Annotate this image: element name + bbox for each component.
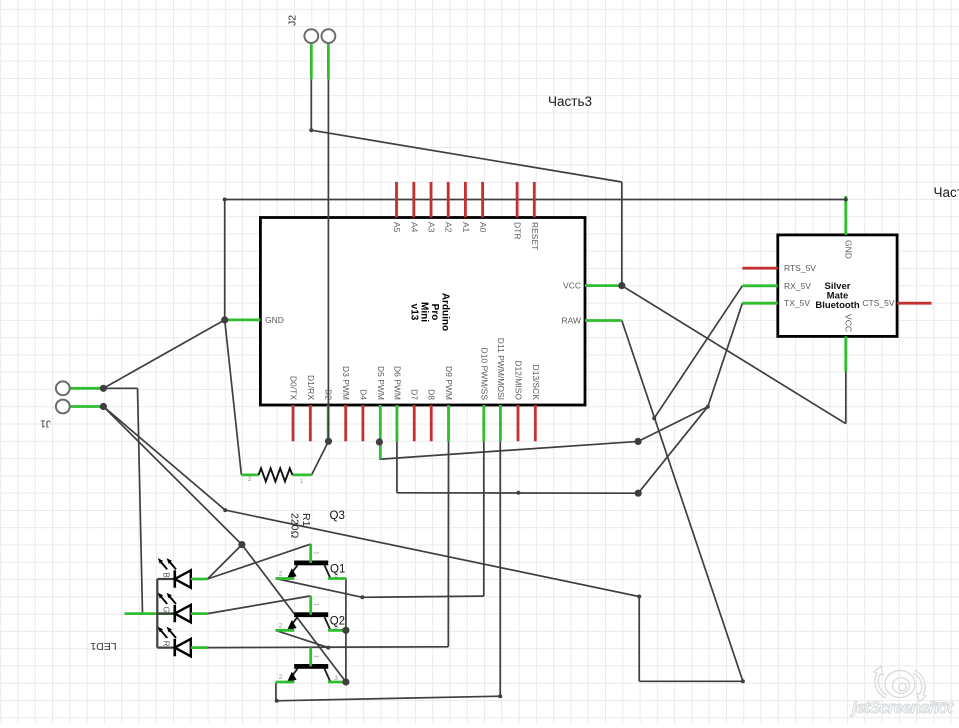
transistor Q1 [276, 544, 347, 579]
svg-text:D12/MISO: D12/MISO [514, 360, 524, 400]
bend GND right [844, 198, 848, 202]
wire collector bus vertical [345, 579, 347, 683]
junction GND [221, 316, 228, 323]
svg-text:v13: v13 [408, 304, 419, 321]
junction RX on RAW [652, 416, 656, 420]
wire D6 vertical [396, 441, 398, 493]
connector J1 [56, 381, 70, 395]
junction Q3 collector [342, 678, 349, 685]
wire GND to R1 left [225, 320, 242, 475]
junction D2 [325, 438, 332, 445]
wire J1-2 to node A [103, 407, 242, 545]
wire D2 node to R1 right [312, 441, 329, 475]
svg-text:D8: D8 [427, 389, 437, 400]
bend right riser [637, 595, 641, 599]
pin D10 green stub [482, 405, 485, 441]
junction D5 [376, 438, 383, 445]
bend D6 line [516, 491, 520, 495]
junction TX vertex [706, 405, 710, 409]
svg-text:J2: J2 [287, 15, 299, 26]
svg-text:Arduino: Arduino [440, 293, 451, 331]
svg-text:RESET: RESET [530, 222, 540, 250]
svg-text:.com: .com [931, 699, 949, 708]
pin A3 red stub [430, 182, 433, 218]
wire J1-1 down to LED bus [138, 388, 143, 613]
watermark jetScreenshot [874, 666, 926, 702]
junction J1-2 [100, 403, 107, 410]
pin D9 green stub [447, 405, 450, 441]
svg-text:RAW: RAW [561, 316, 581, 326]
bend shallow wire [223, 508, 227, 512]
junction Q2 collector [342, 627, 349, 634]
svg-text:A4: A4 [409, 222, 419, 233]
svg-text:D6 PWM: D6 PWM [392, 366, 402, 400]
svg-text:D11 PWM/MOSI: D11 PWM/MOSI [496, 338, 506, 400]
svg-text:1: 1 [300, 478, 304, 485]
wire LED bus vertical [156, 579, 158, 648]
Silver Mate VCC green pin [844, 336, 847, 371]
svg-text:TX_5V: TX_5V [784, 298, 810, 308]
op-amp U1 Arduino Pro Mini v13 body [260, 218, 585, 406]
svg-text:GND: GND [265, 315, 284, 325]
J2 green pin stubs [310, 43, 313, 79]
J1 green pin stubs [70, 387, 104, 390]
pin D4 red stub [361, 405, 364, 441]
svg-text:D1/RX: D1/RX [306, 375, 316, 400]
junction D5-TX [635, 438, 642, 445]
bend D10 wire [360, 595, 364, 599]
bend J2-1 [309, 128, 313, 132]
LED R of LED1 [158, 627, 208, 657]
pin D5 green stub [379, 405, 382, 459]
wire to TX_5V [708, 303, 743, 407]
bend D11 [498, 694, 502, 698]
pin RX_5V green stub [742, 284, 777, 287]
svg-text:RTS_5V: RTS_5V [784, 263, 816, 273]
svg-text:220Ω: 220Ω [289, 513, 301, 539]
svg-text:Часть3: Часть3 [934, 185, 959, 200]
wire long shallow diagonal [225, 510, 639, 596]
pin VCC green stub [585, 284, 622, 287]
wire bus links to LEDs [157, 578, 175, 580]
wire LED G to Q2 base [208, 596, 311, 614]
wire LED B to Q1 base [208, 544, 311, 579]
svg-text:J1: J1 [40, 418, 51, 429]
svg-text:Mini: Mini [419, 302, 430, 322]
LED G left green pin [125, 612, 175, 615]
wire D5 shallow horizontal [379, 441, 638, 459]
wire J2-1 down [310, 79, 312, 130]
svg-text:VCC: VCC [563, 281, 581, 291]
wire link to LED G [143, 613, 158, 615]
wire Q1 emitter to node [276, 579, 363, 598]
wire LED R to D9 line [208, 646, 449, 649]
wire GND left vertical [224, 200, 226, 320]
LED B of LED1 [158, 558, 208, 588]
bend GND left [223, 198, 227, 202]
wire J1-1 stub right [103, 387, 137, 389]
wire J2-1 to VCC diagonal [311, 130, 622, 182]
svg-text:RX_5V: RX_5V [784, 281, 811, 291]
svg-text:D7: D7 [410, 389, 420, 400]
junction node A [238, 541, 245, 548]
svg-text:D10 PWM/SS: D10 PWM/SS [479, 348, 489, 401]
wire down to VCC node [621, 182, 623, 286]
wire Q3 emitter down [275, 683, 277, 701]
pin D2 green stub [327, 405, 330, 441]
junction VCC [618, 282, 625, 289]
svg-text:Q2: Q2 [330, 615, 345, 627]
svg-text:LED1: LED1 [90, 640, 116, 652]
wire bottom right horizontal [639, 680, 743, 682]
svg-text:2: 2 [248, 476, 252, 483]
svg-text:B: B [162, 572, 171, 577]
pin RESET red stub [533, 182, 536, 218]
Silver Mate GND green pin [844, 196, 847, 235]
svg-text:D3 PWM: D3 PWM [341, 366, 351, 400]
svg-text:D9 PWM: D9 PWM [444, 366, 454, 400]
pin RTS_5V red stub [742, 267, 777, 270]
junction J1-1 [100, 385, 107, 392]
svg-text:CTS_5V: CTS_5V [862, 298, 894, 308]
svg-text:D4: D4 [358, 389, 368, 400]
pin A2 red stub [447, 182, 450, 218]
LED G of LED1 [158, 593, 208, 623]
svg-text:GND: GND [844, 240, 854, 259]
wire node A to LED B [208, 545, 242, 579]
wire RX_5V diagonal [654, 286, 742, 418]
wire RAW long diagonal [622, 321, 743, 682]
pin D12 red stub [517, 405, 520, 441]
svg-text:A5: A5 [392, 222, 402, 233]
svg-text:D5 PWM: D5 PWM [376, 366, 386, 400]
svg-text:Q3: Q3 [330, 510, 345, 522]
pin TX_5V green stub [742, 302, 777, 305]
svg-text:2: 2 [279, 674, 283, 681]
svg-text:R1: R1 [300, 513, 312, 527]
svg-text:G: G [162, 606, 171, 612]
svg-text:Bluetooth: Bluetooth [815, 300, 860, 311]
wire vertical up [638, 597, 640, 682]
svg-text:D0/TX: D0/TX [289, 376, 299, 400]
pin A5 red stub [395, 182, 398, 218]
junction Q3 base line [326, 646, 330, 650]
U2 Silver Mate Bluetooth body [778, 235, 897, 337]
pin RAW green stub [585, 319, 622, 322]
svg-text:A0: A0 [478, 222, 488, 233]
pin A0 red stub [481, 182, 484, 218]
pin D6 green stub [395, 405, 398, 441]
transistor Q3 [276, 648, 347, 683]
pin DTR red stub [516, 182, 519, 218]
svg-text:Q1: Q1 [330, 564, 345, 576]
wire D5 node to TX node [638, 407, 708, 442]
svg-text:2: 2 [279, 571, 283, 578]
svg-text:3: 3 [334, 675, 338, 682]
svg-text:D2: D2 [324, 389, 334, 400]
wire D10 vertical [483, 441, 485, 596]
svg-text:Pro: Pro [429, 304, 440, 321]
pin D13 red stub [534, 405, 537, 441]
D2 overlap dark wire [327, 405, 329, 441]
transistor Q2 [276, 596, 347, 631]
wire to D10 horizontal [362, 596, 484, 597]
pin A4 red stub [412, 182, 415, 218]
pin D3 red stub [344, 405, 347, 441]
wire GND to J1-1 [103, 320, 224, 388]
bend Q3 emitter [275, 699, 279, 703]
wire bottom horizontal to D11 [276, 696, 500, 701]
pin D0/TX red stub [292, 405, 295, 441]
wire D6 horizontal [397, 492, 638, 494]
wire Q2 emitter to node [276, 630, 329, 647]
wire D11 vertical [499, 441, 501, 696]
wire J2-2 down to D2 node [327, 79, 329, 441]
wire node A to Q3 collector [242, 545, 346, 682]
bend RAW bottom [741, 679, 745, 683]
resistor R1 220ohm [241, 473, 258, 476]
svg-text:D13/SCK: D13/SCK [531, 365, 541, 401]
svg-text:A3: A3 [427, 222, 437, 233]
wire up to Silver VCC [845, 372, 847, 424]
pin D8 red stub [430, 405, 433, 441]
wire GND horizontal [225, 199, 846, 201]
wire VCC to VCC diagonal [622, 286, 846, 424]
pin D11 green stub [499, 405, 502, 441]
svg-text:A2: A2 [444, 222, 454, 233]
wire D9 vertical [447, 441, 449, 647]
svg-text:Часть3: Часть3 [548, 94, 592, 109]
pin A1 red stub [464, 182, 467, 218]
svg-text:2: 2 [279, 622, 283, 629]
svg-text:A1: A1 [461, 222, 471, 233]
wire D6 node to TX node [638, 407, 708, 494]
svg-text:R: R [162, 641, 171, 647]
wire J1-2 diagonal [103, 407, 225, 511]
pin D7 red stub [413, 405, 416, 441]
pin D1/RX red stub [309, 405, 312, 441]
svg-text:VCC: VCC [844, 314, 854, 332]
pin GND green stub [226, 318, 260, 321]
svg-text:DTR: DTR [513, 222, 523, 239]
connector J2 [304, 29, 318, 43]
junction D6-TX [635, 490, 642, 497]
pin CTS_5V red stub [897, 302, 931, 305]
